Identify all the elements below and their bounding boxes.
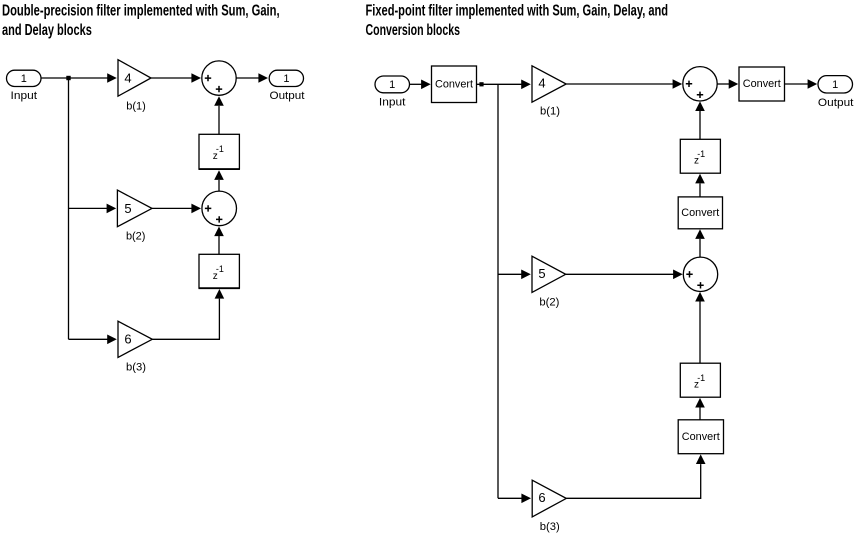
gain b(1) triangle (right) <box>532 66 566 102</box>
svg-text:Fixed-point filter implemented: Fixed-point filter implemented with Sum,… <box>366 2 669 19</box>
arrow into sum 2 left <box>191 204 201 214</box>
svg-text:Input: Input <box>379 96 406 108</box>
svg-text:b(3): b(3) <box>540 521 560 533</box>
gain b(2) triangle (right) <box>532 256 566 292</box>
gain b(1) triangle <box>118 60 151 96</box>
wire: input to gain b(1) <box>41 77 109 79</box>
svg-text:Convert: Convert <box>682 431 720 443</box>
svg-text:b(1): b(1) <box>540 105 560 117</box>
svg-text:6: 6 <box>538 490 545 505</box>
wire: gain b(2) to sum 2 (right) <box>566 273 674 275</box>
junction node on input wire <box>66 76 70 80</box>
wire: sum 1 to convert 2 <box>717 83 730 85</box>
arrow into sum 2 bottom <box>214 227 224 237</box>
wire: sum 1 to output <box>236 77 259 79</box>
wire: vertical branch (right) <box>497 84 499 498</box>
conversion block 4 (bottom) <box>678 420 723 454</box>
wire: convert 2 to output (right) <box>785 83 809 85</box>
wire: branch to gain b(3) <box>69 338 108 340</box>
svg-text:1: 1 <box>21 73 27 85</box>
wire: convert 1 to gain b(1) <box>477 83 523 85</box>
unit delay block 1 (left) z^-1 <box>199 134 240 169</box>
svg-text:b(1): b(1) <box>126 100 146 112</box>
title: right annotation <box>366 2 669 39</box>
wire: gain b(2) to sum 2 <box>152 207 192 209</box>
wire: gain b(1) to sum 1 (right) <box>566 83 673 85</box>
arrow into sum 1 bottom (right) <box>695 101 705 111</box>
arrow into delay 1 bottom (right) <box>695 174 705 184</box>
arrow into delay 2 bottom <box>215 289 225 299</box>
conversion block 3 (between sum 2 and delay 1) <box>678 197 722 229</box>
svg-text:6: 6 <box>124 332 131 347</box>
svg-text:Convert: Convert <box>681 207 719 219</box>
svg-text:5: 5 <box>538 266 545 281</box>
sum block 1 (left) <box>202 61 236 95</box>
svg-text:-1: -1 <box>697 373 705 383</box>
input port block 1 (left) <box>7 70 42 86</box>
svg-text:Conversion blocks: Conversion blocks <box>366 21 460 39</box>
arrow into gain b(3) right <box>521 494 531 504</box>
wire: sum 2 to convert 3 (right) <box>699 239 701 258</box>
svg-text:1: 1 <box>389 79 395 91</box>
arrow into sum 1 left (right) <box>673 79 683 89</box>
wire: gain b(3) to delay 2 <box>152 299 219 340</box>
svg-text:b(2): b(2) <box>539 296 559 308</box>
svg-text:Convert: Convert <box>435 79 473 91</box>
arrow into delay 1 bottom <box>214 170 224 180</box>
wire: gain b(1) to sum 1 <box>151 77 192 79</box>
wire: branch to gain b(2) <box>69 207 108 209</box>
svg-text:b(2): b(2) <box>126 231 146 243</box>
arrow into delay 2 bottom (right) <box>695 398 705 408</box>
svg-text:Input: Input <box>11 90 38 102</box>
title: left annotation <box>2 2 280 39</box>
svg-text:-1: -1 <box>697 149 705 159</box>
wire: delay 1 to sum 1 <box>218 106 220 135</box>
arrow into sum 1 bottom <box>214 96 224 106</box>
arrow into convert 4 bottom <box>696 454 706 464</box>
wire: branch to gain b(2) right <box>498 273 522 275</box>
svg-text:b(3): b(3) <box>126 361 146 373</box>
arrow into convert 3 bottom <box>695 229 705 239</box>
conversion block 1 <box>432 66 477 103</box>
arrow into sum 2 left (right) <box>673 270 683 280</box>
svg-text:1: 1 <box>283 73 289 85</box>
sum block 2 (left) <box>202 191 237 226</box>
wire: convert 3 to delay 1 (right) <box>699 184 701 197</box>
svg-text:4: 4 <box>124 70 131 85</box>
svg-text:Convert: Convert <box>743 78 781 90</box>
wire: delay 2 to sum 2 (right) <box>699 302 701 364</box>
wire: input to convert 1 <box>410 83 423 85</box>
arrow into convert 2 <box>729 79 739 89</box>
svg-text:Double-precision filter implem: Double-precision filter implemented with… <box>2 2 280 19</box>
svg-text:-1: -1 <box>216 264 224 274</box>
gain b(2) triangle <box>117 190 152 227</box>
wire: delay 1 to sum 1 (right) <box>699 111 701 139</box>
junction node after convert 1 <box>479 82 483 86</box>
svg-text:1: 1 <box>832 79 838 91</box>
output port block 1 (right) <box>818 76 853 93</box>
svg-text:4: 4 <box>538 76 545 91</box>
arrow into sum 1 left <box>191 73 201 83</box>
arrow into gain b(1) right <box>521 80 531 90</box>
arrow into convert 1 <box>421 80 431 90</box>
wire: vertical branch from input <box>68 78 70 339</box>
arrow into output (right) <box>808 79 818 89</box>
svg-text:Output: Output <box>270 90 305 102</box>
wire: convert 4 to delay 2 (right) <box>699 408 701 420</box>
gain b(3) triangle <box>118 321 152 357</box>
sum block 1 (right) <box>683 67 717 101</box>
output port block 1 (left) <box>269 70 303 86</box>
arrow into sum 2 bottom (right) <box>695 292 705 302</box>
arrow into output (left) <box>258 73 268 83</box>
conversion block 2 <box>739 67 785 101</box>
arrow into gain b(2) right <box>521 270 531 280</box>
unit delay block 2 (left) z^-1 <box>199 254 240 288</box>
svg-text:-1: -1 <box>216 144 224 154</box>
unit delay block 2 (right) z^-1 <box>680 363 720 397</box>
arrow into gain b(2) <box>107 204 117 214</box>
wire: gain b(3) to convert 4 (right) <box>566 464 700 498</box>
svg-text:Output: Output <box>818 97 854 109</box>
arrow into gain b(3) <box>107 335 117 345</box>
wire: sum 2 to delay 1 <box>218 180 220 191</box>
arrow into gain b(1) <box>107 73 117 83</box>
svg-text:5: 5 <box>124 201 131 216</box>
unit delay block 1 (right) z^-1 <box>680 139 720 173</box>
wire: delay 2 to sum 2 <box>218 236 220 254</box>
wire: branch to gain b(3) right <box>498 497 522 499</box>
input port block 1 (right) <box>375 76 410 93</box>
sum block 2 (right) <box>683 257 717 291</box>
gain b(3) triangle (right) <box>532 480 566 517</box>
svg-text:and Delay blocks: and Delay blocks <box>2 21 92 38</box>
